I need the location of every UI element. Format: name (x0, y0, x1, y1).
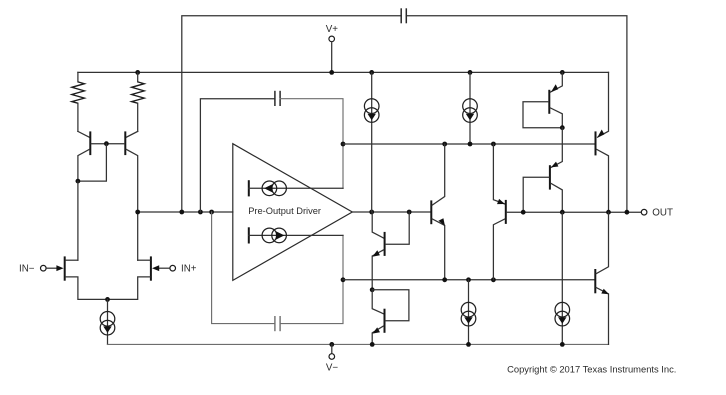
svg-text:Pre-Output Driver: Pre-Output Driver (248, 206, 321, 216)
terminal OUT (641, 207, 673, 218)
node rail-V+ (329, 70, 334, 75)
capacitor C2 (275, 91, 280, 106)
terminal V+ (326, 24, 339, 72)
node W212-Q8base (521, 210, 526, 215)
node Q1 collector (76, 179, 81, 184)
terminal IN+ (158, 264, 197, 275)
wire class-AB rail W280 (343, 279, 595, 281)
node W212-Qout (606, 210, 611, 215)
node tail (105, 297, 110, 302)
node A outer loop (179, 210, 184, 215)
node base tie (104, 141, 109, 146)
node V- rail I6 (466, 342, 471, 347)
wire M2 drain column (137, 212, 139, 260)
wire C3 box left+bottom (gray) (212, 212, 275, 324)
wire V+ rail (78, 71, 609, 73)
transistor Q8 PNP (523, 128, 562, 213)
node W280-Q5e (442, 277, 447, 282)
wire V- rail (108, 343, 609, 345)
wire C2 box right (gray) (280, 99, 343, 189)
terminal V- (326, 342, 339, 373)
svg-text:IN−: IN− (19, 264, 35, 275)
node V- rail I7 (560, 342, 565, 347)
wire outer feedback loop right leg (406, 16, 627, 212)
terminal IN- (19, 264, 58, 275)
transistor Q4 diode PNP (370, 287, 409, 344)
capacitor C3 (275, 316, 280, 331)
node rail-R2 (135, 70, 140, 75)
node W144-Q5c (442, 142, 447, 147)
op-amp U1 pre-output driver triangle (233, 144, 352, 281)
current source I7 (555, 212, 570, 344)
transistor Q10 output NPN (595, 212, 609, 344)
node A boxC3 (209, 210, 214, 215)
node C3 box to W280 (341, 277, 346, 282)
wire outer feedback loop left leg (182, 16, 401, 212)
node W280-Q6c (491, 277, 496, 282)
node W212-loop (625, 210, 630, 215)
transistor Q6 PNP (493, 144, 523, 280)
resistor R1 (72, 72, 85, 131)
wire C3 box right (gray) (280, 235, 343, 323)
transistor Q1 (78, 131, 107, 181)
resistor R2 (132, 72, 145, 131)
node A drain (135, 210, 140, 215)
current source I2 (364, 72, 379, 212)
current source I3 (463, 72, 478, 144)
node out-Q3 base loop (407, 210, 412, 215)
svg-text:Copyright © 2017 Texas Instrum: Copyright © 2017 Texas Instruments Inc. (507, 363, 676, 374)
capacitor C1 (401, 8, 406, 23)
node rail-I2 (369, 70, 374, 75)
current source I4 upper (in U1) (249, 180, 343, 196)
node A boxC2 (198, 210, 203, 215)
input transistor M2 (108, 256, 160, 299)
svg-text:OUT: OUT (652, 207, 673, 218)
node C2 box to mirror wire (341, 142, 346, 147)
transistor Q3 diode PNP (372, 212, 409, 290)
transistor Q9 PNP (596, 72, 609, 212)
svg-text:V+: V+ (326, 24, 339, 35)
node V- rail Q4 (370, 342, 375, 347)
wire output node W212 (523, 211, 641, 213)
transistor Q2 (106, 131, 137, 212)
svg-text:IN+: IN+ (181, 264, 197, 275)
current source I6 (461, 280, 476, 345)
wire driver input (node A) (138, 211, 233, 213)
node W144-Q6e (491, 142, 496, 147)
transistor Q5 NPN (431, 144, 445, 280)
node W144-I3 (468, 142, 473, 147)
wire left column to M1 drain (77, 181, 79, 260)
wire mirror rail W144 (343, 143, 595, 145)
node W280-I6 (466, 277, 471, 282)
transistor Q7 diode PNP top (523, 72, 562, 127)
node Q7 collector (560, 125, 565, 130)
node W212-Q8coll (560, 210, 565, 215)
wire C2 box left+top (200, 99, 275, 212)
wire base-to-collector tie (78, 144, 107, 181)
node rail-Q7 (560, 70, 565, 75)
current source I5 lower (in U1) (249, 227, 343, 243)
input transistor M1 (56, 256, 107, 299)
node rail-I3 (468, 70, 473, 75)
svg-text:V−: V− (326, 362, 339, 373)
current source I1 tail (100, 299, 115, 344)
wire U1 output to Q5 base (352, 211, 430, 213)
node out-I2col (369, 210, 374, 215)
